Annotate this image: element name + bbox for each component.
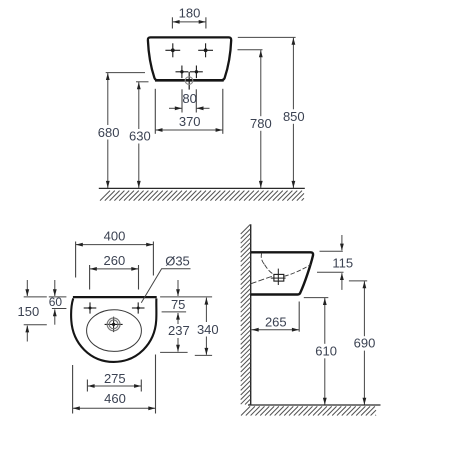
dim 237 bottom reference line [160,351,188,353]
dim 275 line + arrows [87,385,141,387]
plan view: outer outline [71,298,156,362]
svg-text:60: 60 [49,295,63,309]
front view: left fixing hole cross [176,71,189,73]
front view: drain centreline [188,72,190,90]
side view: bowl front inner line [284,265,310,277]
front view ground line [99,187,305,189]
dim 237 arrows [177,313,179,324]
dim 150 arrows [26,280,28,296]
svg-text:Ø35: Ø35 [165,254,190,269]
dim 75 top arrow [177,280,179,296]
dim 60 arrows [54,280,56,296]
svg-text:115: 115 [332,255,353,270]
dim 850 vertical line + arrows [292,38,294,110]
svg-text:260: 260 [104,253,126,268]
dim 690 vertical line + arrows [363,281,365,336]
side view: drain box vertical centreline [277,269,279,285]
svg-text:630: 630 [129,129,151,144]
front view: right fixing hole cross [190,71,203,73]
dim 180 extension ticks [171,17,173,28]
front view ground hatching [100,191,110,201]
dim 80 extension lines [181,89,183,112]
dim 80 arrows (outside, pointing in) [169,107,182,109]
svg-text:690: 690 [354,336,376,351]
dim 340 bottom reference line [195,354,212,356]
side view: drain box [274,274,284,281]
dim 630 vertical line + arrows [138,82,140,129]
dim 630 reference line [136,81,149,83]
dim 275 extension lines [86,380,88,392]
dim 260 line + arrows [90,268,139,270]
side view ground line [248,404,381,406]
front view: drain circle [185,77,193,85]
front view: right tap hole cross [198,49,213,51]
dim 340 vertical line + arrows [205,298,207,322]
dim 180 line + arrows [172,21,206,23]
dim 690 reference line [349,280,367,282]
dim 680 vertical line + arrows [107,73,109,125]
dim 850 reference line [238,36,296,38]
side view: supply line to wall [251,276,274,284]
dim 60 reference lines [49,296,67,298]
dim 680 reference line [106,72,145,74]
dim 460 line + arrows [73,407,156,409]
dim 780 reference line [238,49,263,51]
svg-text:340: 340 [197,322,219,337]
front view: left tap hole cross [165,49,180,51]
svg-text:237: 237 [168,323,190,338]
dim 115 reference lines [320,250,343,252]
side view ground hatching [241,406,250,415]
svg-text:265: 265 [265,314,287,329]
svg-text:680: 680 [98,125,120,140]
side view: wall line [250,224,252,405]
side view: basin profile outline [251,252,313,294]
dim 115 arrows [341,235,343,250]
svg-text:275: 275 [104,371,126,386]
svg-text:610: 610 [315,344,337,359]
dim 75 reference lines [160,296,212,298]
dim 370 extension lines [154,89,156,134]
dim 780 vertical line + arrows [260,50,262,116]
front view: basin outline [148,37,231,80]
dim 610 vertical line + arrows [324,298,326,344]
svg-text:150: 150 [18,304,40,319]
plan view: inner bowl ellipse [87,310,142,352]
dim 400 line + arrows [76,244,154,246]
side view: bowl bottom curve [265,265,274,275]
svg-text:75: 75 [171,297,185,312]
dim 265 extension line [298,302,300,332]
svg-text:180: 180 [179,6,201,21]
plan view: right tap hole cross [132,307,145,309]
dim 150 reference lines [24,296,47,298]
front view: thick bottom rim [155,79,224,82]
dim 260 extension lines [89,265,91,290]
side view: inner back edge [261,253,264,265]
svg-text:400: 400 [104,229,126,244]
svg-text:780: 780 [250,116,272,131]
plan view: drain ring [109,320,118,329]
dim 460 extension lines [72,365,74,414]
side view: drain box horizontal centreline [271,277,286,279]
dim 610 reference line [304,297,329,299]
dim 370 line + arrows [155,129,223,131]
plan view: left tap hole cross [84,307,97,309]
dim 400 extension lines [75,242,77,278]
side view: wall hatching [241,225,251,235]
svg-text:460: 460 [104,391,126,406]
diameter 35 leader line [141,269,190,303]
svg-text:80: 80 [182,91,196,106]
svg-text:850: 850 [283,109,305,124]
dim 265 line + arrows [252,329,300,331]
svg-text:370: 370 [179,114,201,129]
plan view: thick back edge [73,296,157,298]
plan view: drain crosshair [105,323,123,325]
